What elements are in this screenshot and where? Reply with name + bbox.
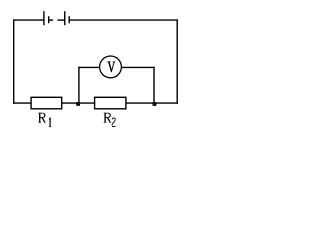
resistor R2 <box>95 97 126 109</box>
label R2: letter R <box>104 113 112 123</box>
label R2: subscript 2 <box>112 118 116 127</box>
wire: voltmeter branch right vertical <box>153 67 155 103</box>
wire: top right segment <box>69 19 178 21</box>
label R1: letter R <box>38 113 46 123</box>
voltmeter label V <box>107 61 115 72</box>
wire: right side <box>176 19 178 103</box>
wire: battery inter-cell stub right <box>58 19 65 21</box>
battery cell 1 short plate <box>48 16 50 23</box>
node A junction dot <box>76 102 80 106</box>
wire: voltmeter branch left horizontal <box>78 66 100 68</box>
battery cell 2 short plate <box>68 16 70 23</box>
wire: bottom segment R2 to node B <box>126 102 178 104</box>
wire: bottom segment R1 to node A <box>62 102 95 104</box>
voltmeter U1 circle <box>100 56 122 78</box>
wire: top left segment <box>13 19 44 21</box>
battery cell 2 long plate <box>64 11 66 25</box>
node B junction dot <box>153 102 157 106</box>
label R1: subscript 1 <box>49 117 52 127</box>
wire: voltmeter branch right horizontal <box>121 66 155 68</box>
wire: voltmeter branch left vertical <box>78 67 80 103</box>
wire: bottom left segment <box>13 102 31 104</box>
battery cell 1 long plate <box>43 11 45 25</box>
wire: left side <box>13 19 15 103</box>
resistor R1 <box>31 97 62 109</box>
wire: battery inter-cell stub left <box>49 19 53 21</box>
